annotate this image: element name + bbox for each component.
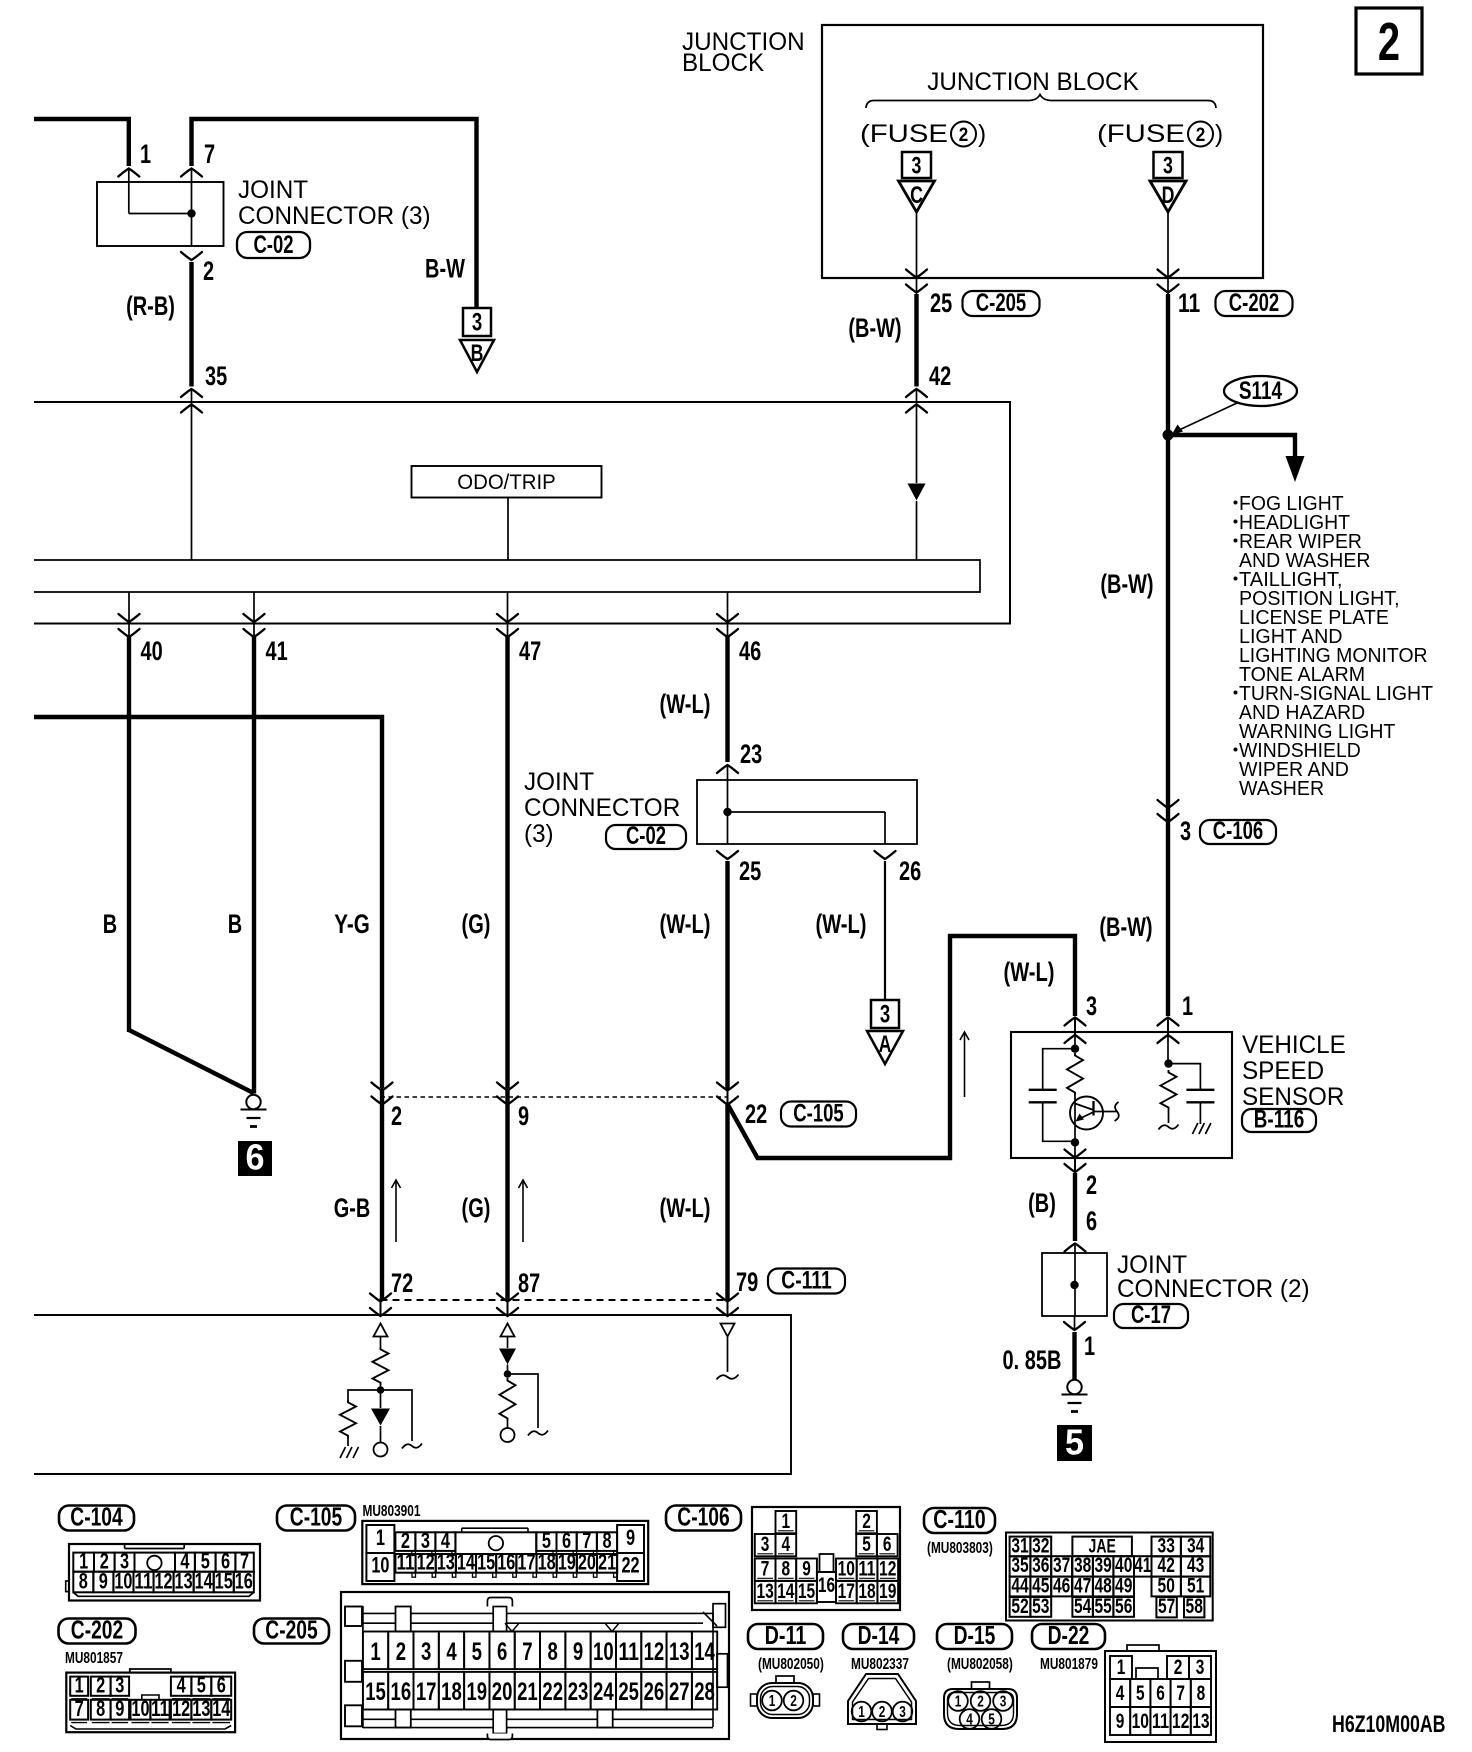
svg-text:C-110: C-110 [933, 1504, 985, 1534]
svg-text:14: 14 [777, 1580, 795, 1603]
svg-text:C: C [910, 182, 923, 209]
svg-text:(W-L): (W-L) [1004, 957, 1055, 987]
svg-text:SPEED: SPEED [1242, 1057, 1324, 1085]
svg-text:11: 11 [134, 1569, 152, 1594]
svg-text:6: 6 [497, 1638, 507, 1666]
svg-text:16: 16 [235, 1569, 253, 1594]
svg-text:12: 12 [644, 1638, 665, 1666]
svg-text:JOINT: JOINT [238, 176, 308, 204]
svg-text:(B-W): (B-W) [848, 313, 901, 343]
svg-text:6: 6 [883, 1533, 892, 1556]
svg-text:5: 5 [197, 1672, 206, 1697]
svg-text:52: 52 [1011, 1595, 1028, 1618]
svg-text:1: 1 [858, 1704, 865, 1721]
svg-text:B: B [471, 340, 484, 367]
svg-text:2: 2 [96, 1672, 105, 1697]
svg-text:S114: S114 [1239, 377, 1282, 405]
svg-text:14: 14 [195, 1569, 214, 1594]
svg-text:10: 10 [838, 1557, 855, 1580]
svg-text:58: 58 [1186, 1595, 1204, 1618]
svg-text:C-106: C-106 [1213, 817, 1263, 845]
svg-text:46: 46 [1053, 1575, 1070, 1598]
svg-text:12: 12 [172, 1696, 190, 1721]
svg-text:8: 8 [96, 1696, 105, 1721]
svg-text:57: 57 [1158, 1595, 1175, 1618]
svg-text:25: 25 [618, 1678, 639, 1706]
svg-text:(W-L): (W-L) [816, 909, 867, 939]
svg-text:25: 25 [930, 288, 952, 318]
svg-text:17: 17 [838, 1580, 855, 1603]
svg-text:21: 21 [517, 1678, 538, 1706]
svg-text:20: 20 [492, 1678, 513, 1706]
svg-text:(W-L): (W-L) [660, 689, 711, 719]
svg-text:26: 26 [644, 1678, 665, 1706]
svg-text:9: 9 [573, 1638, 583, 1666]
svg-text:11: 11 [618, 1638, 639, 1666]
svg-text:13: 13 [756, 1580, 773, 1603]
svg-text:1: 1 [1117, 1656, 1126, 1679]
svg-text:3: 3 [1163, 153, 1173, 180]
svg-text:19: 19 [466, 1678, 487, 1706]
svg-text:C-205: C-205 [976, 289, 1026, 317]
svg-text:5: 5 [1065, 1422, 1084, 1463]
svg-text:23: 23 [568, 1678, 589, 1706]
svg-text:72: 72 [391, 1268, 413, 1298]
svg-text:7: 7 [1176, 1682, 1185, 1705]
svg-text:14: 14 [457, 1550, 476, 1575]
svg-text:26: 26 [899, 856, 921, 886]
svg-text:10: 10 [371, 1553, 389, 1578]
svg-text:9: 9 [802, 1557, 811, 1580]
svg-text:17: 17 [416, 1678, 437, 1706]
svg-text:23: 23 [740, 739, 762, 769]
svg-text:(B): (B) [1028, 1188, 1056, 1218]
svg-text:18: 18 [858, 1580, 876, 1603]
svg-text:13: 13 [1192, 1710, 1209, 1733]
svg-text:3: 3 [1196, 1656, 1205, 1679]
svg-text:BLOCK: BLOCK [682, 49, 765, 77]
svg-text:C-105: C-105 [290, 1502, 342, 1532]
svg-text:C-202: C-202 [71, 1615, 123, 1645]
svg-text:CONNECTOR (2): CONNECTOR (2) [1117, 1275, 1310, 1303]
svg-text:3: 3 [1000, 1694, 1007, 1711]
svg-text:MU803901: MU803901 [363, 1503, 421, 1520]
svg-text:4: 4 [177, 1672, 187, 1697]
svg-text:3: 3 [880, 1001, 890, 1029]
svg-text:9: 9 [626, 1525, 635, 1550]
svg-text:(W-L): (W-L) [660, 909, 711, 939]
svg-text:16: 16 [818, 1574, 835, 1597]
svg-text:3: 3 [912, 153, 922, 180]
svg-text:(FUSE: (FUSE [1097, 120, 1185, 148]
svg-text:47: 47 [519, 636, 541, 666]
svg-text:6: 6 [246, 1137, 265, 1178]
svg-text:B: B [228, 909, 242, 939]
svg-text:54: 54 [1074, 1595, 1092, 1618]
svg-text:2: 2 [790, 1693, 797, 1710]
svg-text:15: 15 [365, 1678, 386, 1706]
svg-text:Y-G: Y-G [334, 909, 370, 939]
svg-text:1: 1 [1084, 1331, 1095, 1361]
svg-text:55: 55 [1095, 1595, 1113, 1618]
svg-text:18: 18 [538, 1550, 556, 1575]
svg-text:1: 1 [955, 1694, 962, 1711]
svg-text:2: 2 [1378, 12, 1400, 72]
svg-text:3: 3 [421, 1638, 431, 1666]
svg-text:VEHICLE: VEHICLE [1242, 1031, 1346, 1059]
svg-text:C-202: C-202 [1229, 289, 1279, 317]
svg-text:JAE: JAE [1089, 1537, 1116, 1558]
svg-text:20: 20 [578, 1550, 596, 1575]
svg-text:9: 9 [99, 1569, 108, 1594]
svg-text:1: 1 [376, 1525, 385, 1550]
svg-text:7: 7 [75, 1696, 84, 1721]
svg-text:3: 3 [115, 1672, 124, 1697]
svg-text:40: 40 [141, 636, 163, 666]
svg-text:4: 4 [966, 1712, 973, 1729]
svg-text:B-W: B-W [425, 254, 465, 284]
svg-text:3: 3 [472, 309, 482, 337]
svg-text:46: 46 [739, 636, 761, 666]
svg-text:2: 2 [977, 1694, 984, 1711]
svg-text:C-02: C-02 [253, 231, 293, 259]
svg-text:7: 7 [204, 139, 215, 169]
svg-text:B-116: B-116 [1254, 1105, 1304, 1133]
svg-text:7: 7 [522, 1638, 532, 1666]
svg-text:13: 13 [437, 1550, 455, 1575]
svg-text:D-15: D-15 [954, 1620, 996, 1650]
svg-text:79: 79 [736, 1267, 758, 1297]
svg-text:MU801879: MU801879 [1040, 1656, 1098, 1673]
svg-text:22: 22 [621, 1553, 639, 1578]
svg-text:G-B: G-B [334, 1193, 371, 1223]
svg-text:CONNECTOR: CONNECTOR [524, 794, 680, 822]
svg-text:2: 2 [1086, 1170, 1097, 1200]
svg-text:D-14: D-14 [858, 1620, 900, 1650]
svg-text:D: D [1162, 182, 1175, 209]
svg-text:15: 15 [477, 1550, 495, 1575]
svg-text:27: 27 [669, 1678, 690, 1706]
svg-text:17: 17 [517, 1550, 535, 1575]
svg-text:16: 16 [497, 1550, 515, 1575]
svg-text:H6Z10M00AB: H6Z10M00AB [1332, 1711, 1446, 1738]
svg-text:1: 1 [140, 139, 151, 169]
svg-text:4: 4 [782, 1533, 791, 1556]
svg-text:13: 13 [192, 1696, 210, 1721]
svg-text:12: 12 [154, 1569, 172, 1594]
svg-text:3: 3 [1086, 991, 1097, 1021]
svg-text:9: 9 [115, 1696, 124, 1721]
svg-text:24: 24 [593, 1678, 614, 1706]
svg-text:22: 22 [542, 1678, 563, 1706]
svg-text:2: 2 [203, 256, 214, 286]
svg-text:(FUSE: (FUSE [860, 120, 948, 148]
svg-text:A: A [879, 1031, 892, 1058]
svg-text:D-22: D-22 [1048, 1620, 1090, 1650]
svg-text:42: 42 [929, 361, 951, 391]
svg-text:18: 18 [441, 1678, 462, 1706]
svg-text:JOINT: JOINT [524, 768, 594, 796]
svg-text:10: 10 [593, 1638, 614, 1666]
svg-text:5: 5 [862, 1533, 871, 1556]
svg-text:15: 15 [798, 1580, 816, 1603]
svg-text:41: 41 [1134, 1554, 1152, 1577]
svg-text:10: 10 [131, 1696, 149, 1721]
svg-text:28: 28 [694, 1678, 715, 1706]
svg-text:ODO/TRIP: ODO/TRIP [457, 471, 556, 494]
svg-text:): ) [1215, 120, 1223, 148]
svg-text:2: 2 [862, 1510, 871, 1533]
svg-text:(B-W): (B-W) [1099, 912, 1152, 942]
svg-text:2: 2 [1174, 1656, 1183, 1679]
svg-text:8: 8 [548, 1638, 558, 1666]
svg-text:14: 14 [212, 1696, 231, 1721]
svg-text:10: 10 [114, 1569, 132, 1594]
svg-text:10: 10 [1132, 1710, 1149, 1733]
svg-text:(MU803803): (MU803803) [927, 1540, 993, 1557]
svg-text:2: 2 [959, 125, 969, 146]
svg-text:1: 1 [370, 1638, 380, 1666]
svg-text:6: 6 [217, 1672, 226, 1697]
svg-text:11: 11 [858, 1557, 876, 1580]
svg-text:12: 12 [879, 1557, 896, 1580]
svg-text:4: 4 [1116, 1682, 1125, 1705]
svg-text:B: B [103, 909, 117, 939]
svg-text:MU801857: MU801857 [65, 1650, 123, 1667]
svg-text:(G): (G) [462, 1193, 491, 1223]
svg-text:C-106: C-106 [677, 1502, 729, 1532]
svg-text:1: 1 [75, 1672, 84, 1697]
svg-text:C-205: C-205 [265, 1615, 317, 1645]
svg-text:6: 6 [1156, 1682, 1165, 1705]
svg-text:56: 56 [1115, 1595, 1132, 1618]
svg-text:35: 35 [205, 361, 227, 391]
svg-text:3: 3 [761, 1533, 770, 1556]
svg-text:14: 14 [694, 1638, 715, 1666]
svg-text:9: 9 [1116, 1710, 1125, 1733]
svg-text:CONNECTOR (3): CONNECTOR (3) [238, 202, 431, 230]
svg-text:21: 21 [598, 1550, 616, 1575]
svg-text:13: 13 [669, 1638, 690, 1666]
svg-text:1: 1 [782, 1510, 791, 1533]
svg-text:D-11: D-11 [765, 1620, 807, 1650]
svg-text:8: 8 [1197, 1682, 1206, 1705]
svg-text:12: 12 [1172, 1710, 1189, 1733]
svg-text:0. 85B: 0. 85B [1003, 1345, 1062, 1375]
svg-text:8: 8 [782, 1557, 791, 1580]
svg-text:11: 11 [151, 1696, 169, 1721]
svg-text:(R-B): (R-B) [126, 291, 175, 321]
svg-text:3: 3 [1180, 816, 1191, 846]
svg-text:25: 25 [739, 856, 761, 886]
svg-text:WASHER: WASHER [1239, 778, 1324, 800]
svg-text:): ) [978, 120, 986, 148]
svg-text:JUNCTION BLOCK: JUNCTION BLOCK [927, 68, 1139, 96]
svg-text:8: 8 [79, 1569, 88, 1594]
svg-text:22: 22 [745, 1099, 767, 1129]
svg-text:19: 19 [558, 1550, 576, 1575]
svg-text:41: 41 [266, 636, 288, 666]
svg-text:5: 5 [1136, 1682, 1145, 1705]
svg-text:C-105: C-105 [793, 1100, 843, 1128]
svg-text:13: 13 [175, 1569, 193, 1594]
svg-text:2: 2 [879, 1704, 886, 1721]
svg-text:C-104: C-104 [70, 1502, 123, 1532]
svg-text:12: 12 [417, 1550, 435, 1575]
svg-text:C-02: C-02 [626, 822, 666, 850]
svg-text:2: 2 [1196, 125, 1206, 146]
svg-text:(W-L): (W-L) [660, 1193, 711, 1223]
svg-text:2: 2 [396, 1638, 406, 1666]
svg-text:16: 16 [391, 1678, 412, 1706]
svg-text:11: 11 [1152, 1710, 1170, 1733]
svg-text:1: 1 [1182, 991, 1193, 1021]
svg-text:5: 5 [472, 1638, 482, 1666]
svg-text:87: 87 [518, 1268, 540, 1298]
svg-text:C-17: C-17 [1131, 1301, 1171, 1329]
svg-text:(B-W): (B-W) [1100, 569, 1153, 599]
svg-text:1: 1 [769, 1693, 776, 1710]
svg-text:7: 7 [761, 1557, 770, 1580]
svg-text:(3): (3) [524, 820, 554, 848]
svg-text:C-111: C-111 [781, 1267, 831, 1295]
svg-text:4: 4 [446, 1638, 456, 1666]
svg-text:(G): (G) [462, 909, 491, 939]
svg-text:11: 11 [1178, 288, 1200, 318]
svg-text:5: 5 [988, 1712, 995, 1729]
svg-text:2: 2 [391, 1101, 402, 1131]
svg-text:15: 15 [215, 1569, 233, 1594]
svg-text:3: 3 [899, 1704, 906, 1721]
svg-text:53: 53 [1032, 1595, 1049, 1618]
svg-text:11: 11 [396, 1550, 414, 1575]
svg-text:19: 19 [879, 1580, 896, 1603]
svg-text:6: 6 [1086, 1206, 1097, 1236]
svg-text:MU802337: MU802337 [851, 1656, 909, 1673]
svg-text:(MU802058): (MU802058) [947, 1656, 1013, 1673]
svg-text:(MU802050): (MU802050) [758, 1656, 824, 1673]
svg-text:9: 9 [518, 1101, 529, 1131]
